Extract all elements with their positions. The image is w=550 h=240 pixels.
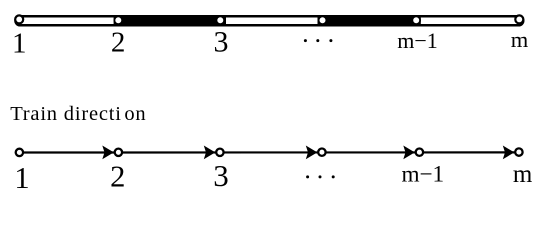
node 1 (top): [15, 15, 23, 23]
svg-text:Train direction: Train direction: [10, 103, 146, 125]
track tube (top bar): [15, 16, 523, 25]
node m-1 (bottom): [416, 149, 423, 156]
node 2 (bottom): [115, 149, 122, 156]
svg-text:m: m: [513, 161, 533, 188]
occupied block segment 2-3: [114, 15, 226, 26]
arrow into node m: [503, 146, 515, 160]
arrow into node 3: [204, 146, 216, 160]
node 2 (top): [114, 16, 122, 24]
svg-text:3: 3: [213, 158, 229, 193]
svg-text:m−1: m−1: [401, 161, 444, 187]
node m-1 (top): [412, 16, 420, 24]
svg-text:1: 1: [14, 161, 29, 195]
ellipsis dots (bottom): [306, 175, 335, 178]
node 4 (top): [319, 16, 327, 24]
arrow into node m-1: [403, 146, 415, 160]
train line (bottom): [19, 151, 519, 153]
arrow into node 4: [306, 146, 318, 160]
svg-text:2: 2: [111, 26, 126, 58]
node 4 (bottom): [318, 149, 325, 156]
node 3 (top): [216, 16, 224, 24]
svg-text:3: 3: [214, 26, 229, 59]
svg-text:m−1: m−1: [397, 28, 438, 53]
arrow into node 2: [102, 146, 114, 160]
svg-text:1: 1: [12, 28, 27, 60]
svg-text:m: m: [511, 27, 529, 52]
node m (bottom): [515, 148, 522, 155]
node 1 (bottom): [16, 149, 23, 156]
node m (top): [515, 15, 523, 23]
ellipsis dots (top): [304, 39, 333, 42]
occupied block segment 4-(m-1): [318, 15, 421, 26]
svg-text:2: 2: [110, 159, 125, 193]
node 3 (bottom): [216, 149, 223, 156]
